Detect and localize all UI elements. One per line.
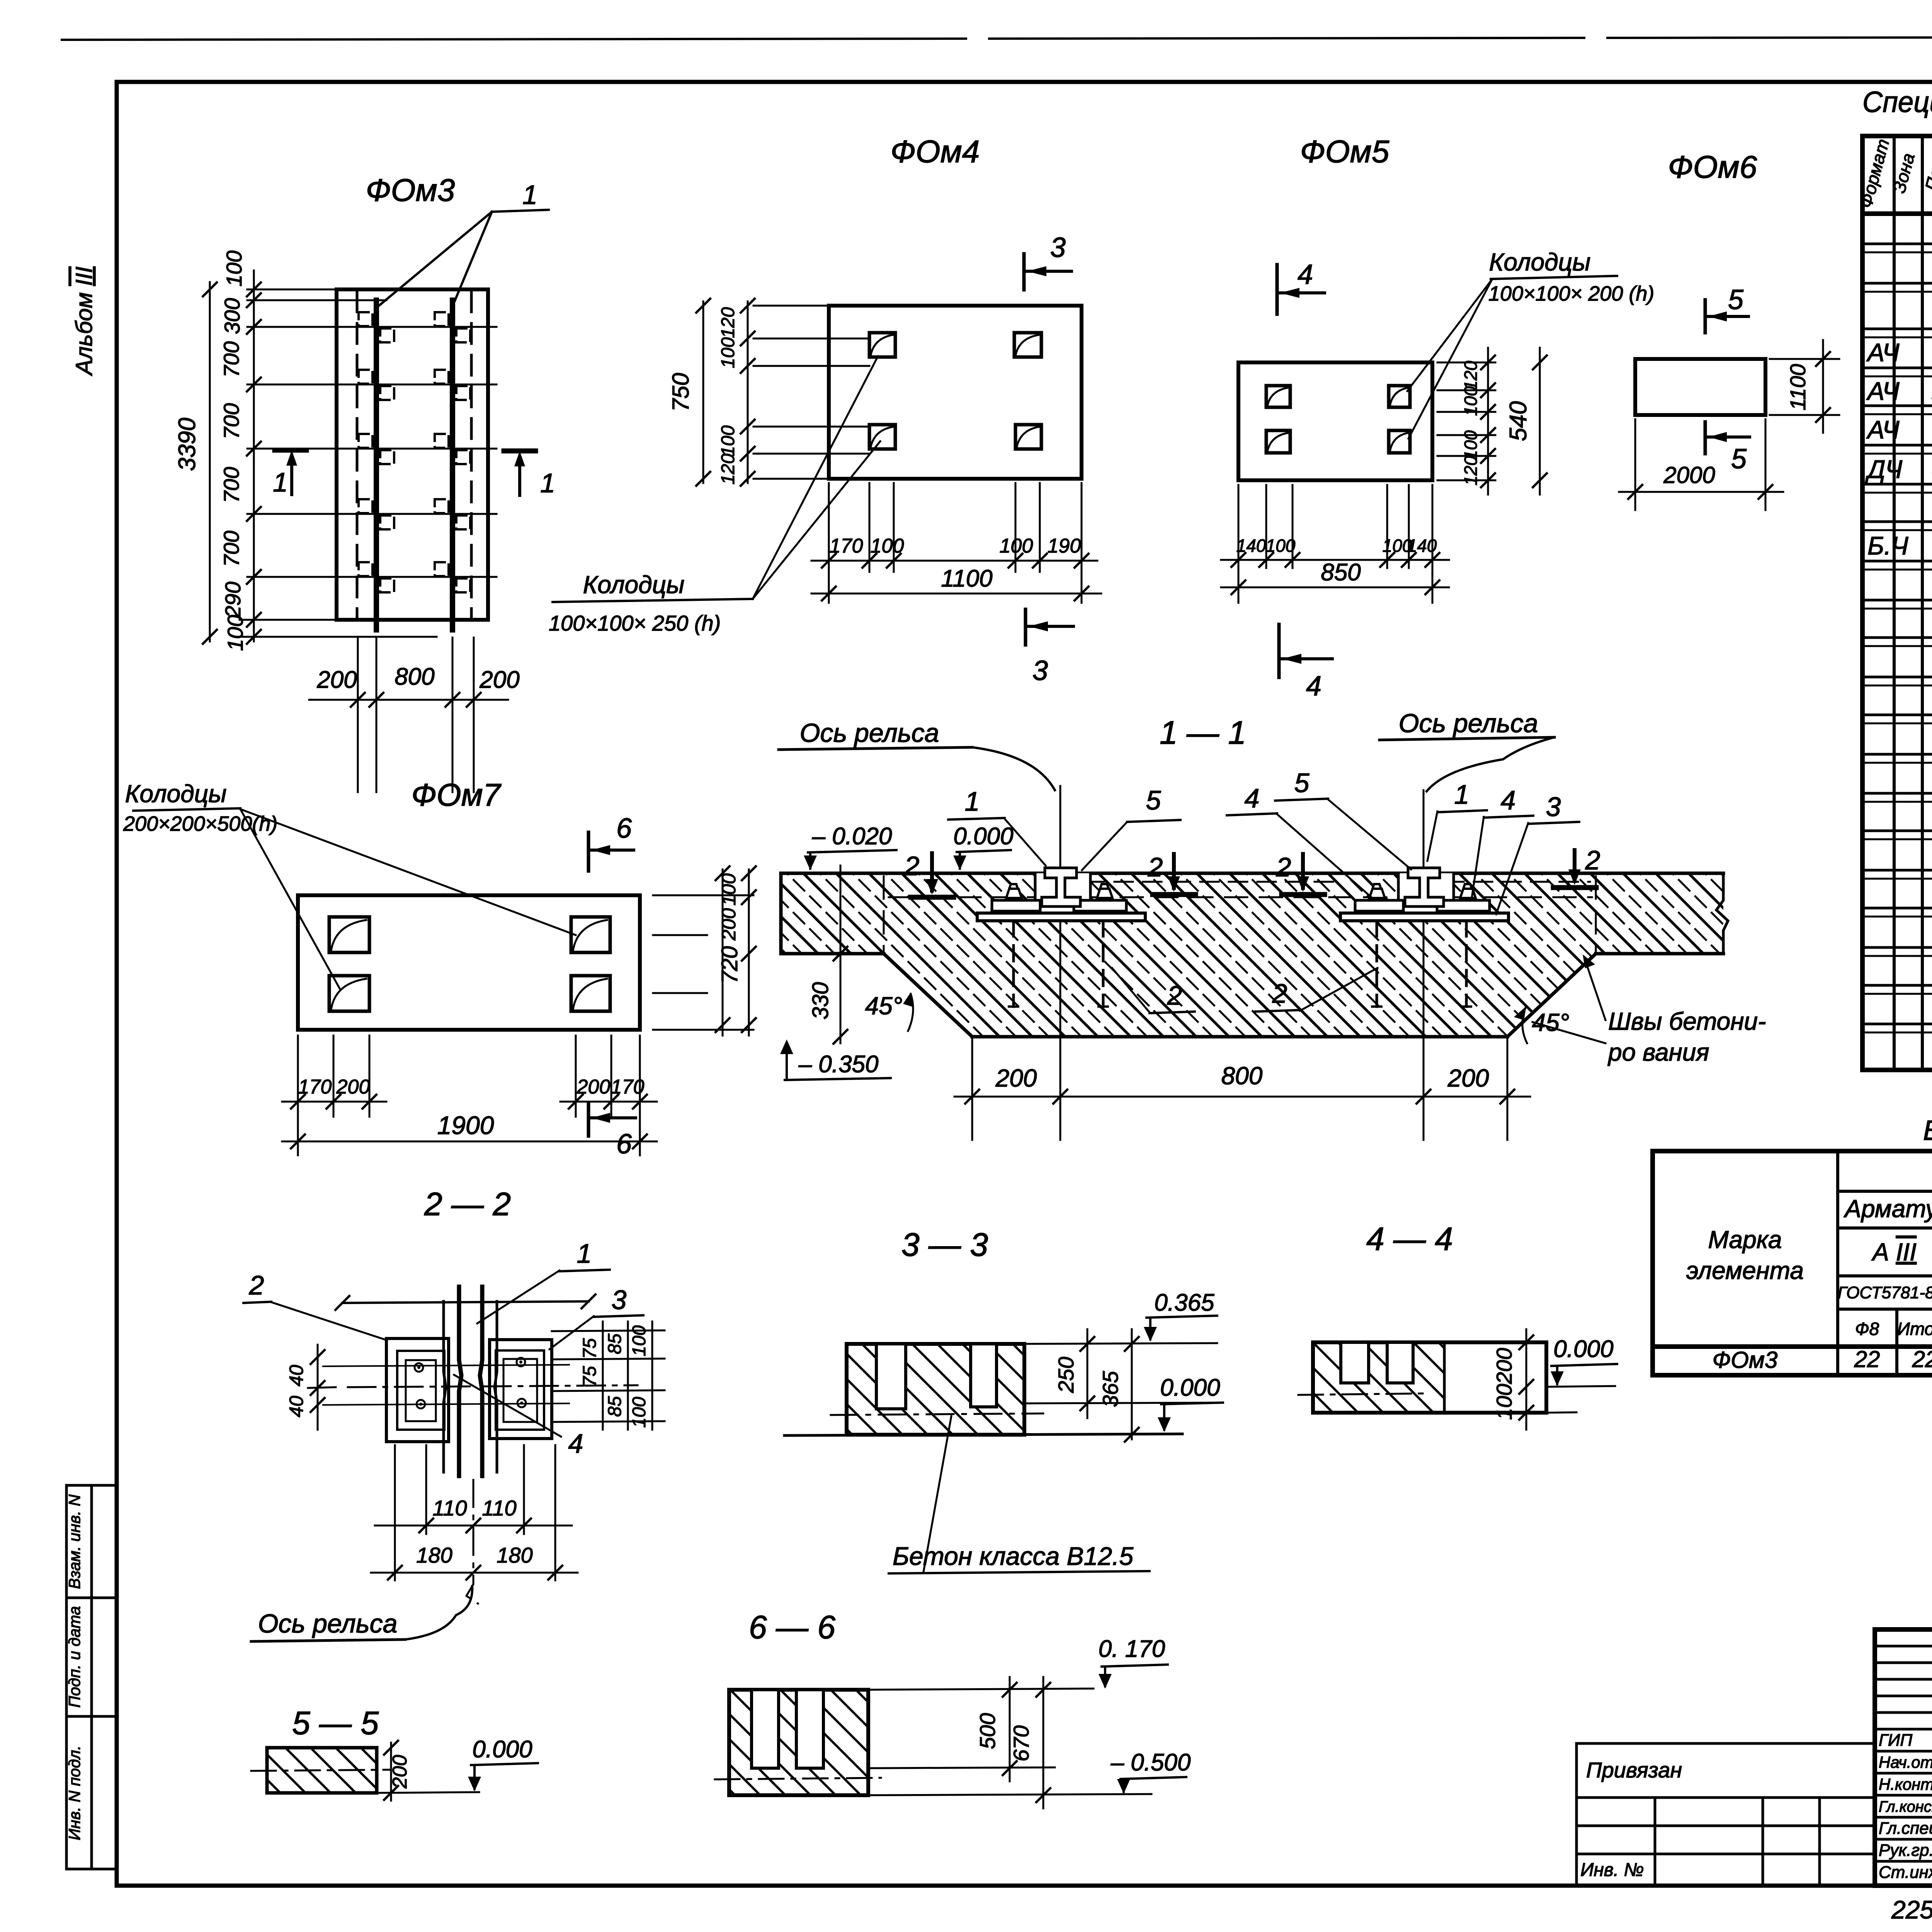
svg-text:200: 200 xyxy=(389,1755,411,1789)
left dim chain xyxy=(210,270,254,641)
svg-text:5: 5 xyxy=(1146,785,1162,815)
svg-text:2: 2 xyxy=(1276,852,1291,882)
svg-text:Марка: Марка xyxy=(1708,1226,1782,1253)
paper top edge line xyxy=(62,37,1932,40)
svg-text:100: 100 xyxy=(223,615,247,651)
anchor rows xyxy=(247,327,497,577)
dims xyxy=(1024,1329,1221,1439)
svg-text:100: 100 xyxy=(1266,536,1296,556)
spec rows content xyxy=(1865,216,1932,1066)
svg-text:Подп. и дата: Подп. и дата xyxy=(65,1606,83,1708)
svg-text:720: 720 xyxy=(717,946,742,984)
top and bottom extension lines xyxy=(240,289,437,637)
embed dashed line across block xyxy=(884,876,1596,951)
svg-text:1100: 1100 xyxy=(941,565,992,592)
svg-text:200: 200 xyxy=(995,1064,1037,1092)
section mark 6 top xyxy=(587,832,590,871)
svg-text:6: 6 xyxy=(616,1129,632,1160)
svg-text:850: 850 xyxy=(1321,559,1361,586)
svg-text:500: 500 xyxy=(975,1713,1000,1749)
svg-text:АЧ: АЧ xyxy=(1866,377,1900,405)
svg-text:Ось рельса: Ось рельса xyxy=(258,1609,398,1638)
right anchor plates nested xyxy=(490,1340,552,1439)
pad dashed lines near surface between rails xyxy=(1086,881,1590,883)
svg-text:Спецификация фундаментов под: Спецификация фундаментов под оборудовани… xyxy=(1862,86,1932,119)
svg-text:4: 4 xyxy=(1245,783,1260,813)
svg-text:4: 4 xyxy=(1501,785,1516,815)
svg-text:Гл.конст.: Гл.конст. xyxy=(1879,1798,1932,1815)
svg-text:– 0.020: – 0.020 xyxy=(812,823,892,850)
svg-text:Н.контр.: Н.контр. xyxy=(1879,1775,1932,1793)
top ext line xyxy=(342,1301,588,1303)
bottom line texts xyxy=(1891,1895,1932,1928)
left dim chains xyxy=(653,866,840,1043)
svg-text:2: 2 xyxy=(904,851,920,881)
svg-text:Ось рельса: Ось рельса xyxy=(1399,709,1538,738)
central rail (plan) xyxy=(444,1301,497,1472)
svg-text:2: 2 xyxy=(1585,845,1600,875)
svg-text:100×100× 200 (h): 100×100× 200 (h) xyxy=(1488,282,1654,305)
privyazan small table xyxy=(1577,1743,1875,1882)
long horizontal lines xyxy=(323,1365,569,1405)
svg-text:Швы бетони-: Швы бетони- xyxy=(1608,1007,1766,1035)
dashed edge lines xyxy=(357,292,471,618)
svg-text:1: 1 xyxy=(273,467,288,497)
svg-text:140: 140 xyxy=(1407,536,1437,556)
section mark 1 left xyxy=(275,448,306,453)
svg-text:1: 1 xyxy=(540,468,555,498)
svg-text:1: 1 xyxy=(965,786,980,816)
svg-text:А III: А III xyxy=(1871,1238,1917,1266)
svg-text:365: 365 xyxy=(1098,1371,1122,1407)
concrete outline xyxy=(781,873,1728,1037)
dims right xyxy=(1526,1329,1615,1430)
svg-text:100: 100 xyxy=(1000,535,1033,557)
svg-text:5: 5 xyxy=(1731,444,1747,474)
svg-text:180: 180 xyxy=(416,1543,452,1567)
svg-text:2: 2 xyxy=(1167,980,1182,1010)
svg-text:0. 170: 0. 170 xyxy=(1099,1636,1165,1662)
ext lines xyxy=(868,1677,1151,1808)
svg-text:190: 190 xyxy=(1048,535,1081,557)
bottom dims xyxy=(282,1036,657,1155)
svg-text:ДЧ: ДЧ xyxy=(1865,455,1903,483)
svg-text:Взам. инв. N: Взам. инв. N xyxy=(65,1494,83,1589)
right dim chain xyxy=(1437,348,1540,495)
svg-text:100: 100 xyxy=(629,1397,650,1428)
svg-text:ФОм5: ФОм5 xyxy=(1300,134,1389,169)
svg-text:3: 3 xyxy=(1050,232,1066,263)
svg-text:100: 100 xyxy=(1461,386,1481,416)
svg-text:3 — 3: 3 — 3 xyxy=(901,1226,988,1263)
svg-text:100×100× 250 (h): 100×100× 250 (h) xyxy=(549,611,721,635)
svg-text:170: 170 xyxy=(611,1076,645,1098)
anchor dashed squares xyxy=(359,312,470,592)
bottom dims xyxy=(1221,485,1449,603)
svg-text:0.000: 0.000 xyxy=(472,1736,532,1763)
svg-text:1: 1 xyxy=(522,180,537,210)
svg-text:5: 5 xyxy=(1728,284,1744,315)
svg-text:200: 200 xyxy=(479,667,519,693)
svg-text:ФОм3: ФОм3 xyxy=(366,173,455,208)
svg-text:0.000: 0.000 xyxy=(953,823,1013,850)
svg-text:45°: 45° xyxy=(1532,1009,1570,1036)
svg-text:Инв. N подл.: Инв. N подл. xyxy=(65,1745,83,1840)
svg-text:700: 700 xyxy=(219,341,243,377)
right dims cluster 75/85/100 xyxy=(552,1321,665,1430)
svg-text:45°: 45° xyxy=(865,992,903,1020)
rails xyxy=(376,300,452,630)
svg-text:750: 750 xyxy=(668,373,694,412)
svg-text:300: 300 xyxy=(220,298,244,334)
svg-text:100: 100 xyxy=(1492,1384,1516,1420)
concrete hatched body xyxy=(781,873,1723,1037)
svg-text:Привязан: Привязан xyxy=(1586,1758,1682,1782)
svg-text:ГОСТ5781-82*: ГОСТ5781-82* xyxy=(1838,1283,1932,1302)
svg-text:200: 200 xyxy=(718,908,740,941)
svg-text:ФОм4: ФОм4 xyxy=(891,134,980,169)
svg-text:1 — 1: 1 — 1 xyxy=(1160,714,1246,751)
svg-text:ФОм7: ФОм7 xyxy=(412,777,502,813)
bottom dims xyxy=(811,483,1101,603)
rail assembly 1 xyxy=(977,786,1145,1007)
svg-text:120: 120 xyxy=(718,307,738,338)
svg-text:Итого: Итого xyxy=(1897,1319,1932,1339)
svg-text:1: 1 xyxy=(577,1238,592,1269)
svg-text:2: 2 xyxy=(1272,978,1287,1009)
svg-text:6: 6 xyxy=(616,813,632,844)
bottom dim chain 200 800 200 xyxy=(309,638,508,792)
svg-text:75: 75 xyxy=(580,1366,600,1387)
svg-text:4: 4 xyxy=(1298,259,1313,290)
svg-text:2: 2 xyxy=(1148,852,1163,882)
svg-text:Гл.спец.: Гл.спец. xyxy=(1879,1819,1932,1838)
svg-text:Ведомость расхода стали на: Ведомость расхода стали на элемент, кг xyxy=(1923,1115,1932,1146)
svg-text:4 — 4: 4 — 4 xyxy=(1366,1221,1453,1257)
svg-text:0.365: 0.365 xyxy=(1154,1289,1214,1316)
svg-text:Рук.гр.: Рук.гр. xyxy=(1879,1841,1932,1860)
svg-text:170: 170 xyxy=(298,1076,332,1098)
svg-text:800: 800 xyxy=(395,663,434,690)
svg-text:Ф8: Ф8 xyxy=(1855,1319,1879,1339)
svg-text:0.000: 0.000 xyxy=(1160,1374,1220,1401)
dim 2000 bottom xyxy=(1619,419,1783,510)
left margin stamp boxes xyxy=(66,1485,117,1869)
svg-text:22532-01: 22532-01 xyxy=(1891,1895,1932,1924)
svg-text:Колодцы: Колодцы xyxy=(583,571,685,599)
svg-text:200: 200 xyxy=(316,667,357,693)
svg-text:3: 3 xyxy=(1032,655,1048,686)
svg-text:2: 2 xyxy=(249,1270,264,1300)
svg-text:элемента: элемента xyxy=(1686,1257,1804,1284)
svg-text:200: 200 xyxy=(1492,1348,1516,1384)
section mark 4 top xyxy=(1276,265,1279,314)
svg-text:100: 100 xyxy=(871,535,904,557)
svg-text:Ст.инж.: Ст.инж. xyxy=(1879,1863,1932,1882)
section mark 4 bottom xyxy=(1277,624,1281,677)
rail assembly 2 xyxy=(1340,790,1509,1007)
svg-text:0.000: 0.000 xyxy=(1553,1336,1613,1362)
section mark 1 right xyxy=(504,449,536,454)
svg-text:180: 180 xyxy=(497,1543,532,1567)
svg-text:22: 22 xyxy=(1854,1346,1880,1372)
svg-text:75: 75 xyxy=(580,1338,600,1359)
svg-text:4: 4 xyxy=(1306,671,1321,702)
svg-text:670: 670 xyxy=(1009,1725,1033,1761)
section mark 5 top xyxy=(1704,300,1707,333)
svg-text:170: 170 xyxy=(830,535,863,557)
svg-text:40: 40 xyxy=(286,1396,307,1417)
svg-text:110: 110 xyxy=(482,1496,516,1520)
svg-text:100: 100 xyxy=(222,250,246,286)
svg-text:1: 1 xyxy=(1454,779,1469,810)
svg-text:Нач.отд.: Нач.отд. xyxy=(1879,1753,1932,1771)
svg-text:Инв. №: Инв. № xyxy=(1580,1860,1644,1880)
svg-text:Ось рельса: Ось рельса xyxy=(800,718,939,748)
section mark 3 bottom xyxy=(1024,609,1027,645)
svg-text:ФОм3: ФОм3 xyxy=(1713,1347,1778,1373)
svg-text:85: 85 xyxy=(605,1333,625,1354)
svg-text:3390: 3390 xyxy=(174,418,201,471)
spec table grid xyxy=(1862,136,1932,1070)
svg-text:800: 800 xyxy=(1221,1062,1263,1090)
svg-text:120: 120 xyxy=(718,454,738,485)
svg-text:700: 700 xyxy=(219,467,243,503)
spec header texts xyxy=(1855,137,1932,210)
svg-text:ГИП: ГИП xyxy=(1879,1731,1912,1750)
svg-text:ро вания: ро вания xyxy=(1607,1038,1709,1066)
svg-text:5: 5 xyxy=(1294,768,1310,798)
svg-text:200: 200 xyxy=(1447,1064,1489,1092)
svg-text:6 — 6: 6 — 6 xyxy=(749,1609,835,1645)
svg-text:85: 85 xyxy=(605,1396,625,1417)
svg-text:Колодцы: Колодцы xyxy=(125,780,227,808)
bottom dims xyxy=(371,1445,578,1604)
svg-text:200×200×500(h): 200×200×500(h) xyxy=(123,812,277,835)
svg-text:Б.Ч: Б.Ч xyxy=(1867,531,1908,560)
svg-text:120: 120 xyxy=(1461,456,1481,485)
svg-text:100: 100 xyxy=(1461,430,1481,460)
left 40/40 dims xyxy=(317,1345,319,1430)
svg-text:540: 540 xyxy=(1505,401,1532,441)
left dim chain xyxy=(703,301,869,483)
svg-text:200: 200 xyxy=(336,1076,370,1098)
svg-text:140: 140 xyxy=(1236,536,1266,556)
bottom dims 200 800 200 xyxy=(954,1009,1530,1140)
svg-text:АЧ: АЧ xyxy=(1866,338,1900,367)
svg-text:2000: 2000 xyxy=(1663,462,1715,488)
svg-text:3: 3 xyxy=(1546,792,1561,822)
svg-text:700: 700 xyxy=(219,531,243,566)
svg-text:Альбом III: Альбом III xyxy=(71,267,97,376)
svg-text:100: 100 xyxy=(718,873,740,906)
svg-text:290: 290 xyxy=(221,582,245,618)
section mark 5 bottom xyxy=(1704,422,1707,454)
svg-text:– 0.500: – 0.500 xyxy=(1111,1749,1191,1776)
svg-text:100: 100 xyxy=(718,337,738,368)
section mark 6 bottom xyxy=(587,1103,590,1136)
svg-text:Арматура класса: Арматура класса xyxy=(1843,1195,1932,1223)
svg-text:1900: 1900 xyxy=(437,1111,494,1139)
section marks 2 xyxy=(904,851,954,897)
svg-text:100: 100 xyxy=(629,1325,650,1356)
svg-text:40: 40 xyxy=(286,1365,307,1386)
svg-text:3: 3 xyxy=(612,1285,627,1315)
svg-text:5 — 5: 5 — 5 xyxy=(292,1705,379,1741)
svg-text:250: 250 xyxy=(1054,1357,1078,1393)
svg-text:АЧ: АЧ xyxy=(1866,415,1900,444)
svg-text:200: 200 xyxy=(577,1076,611,1098)
svg-text:2 — 2: 2 — 2 xyxy=(424,1186,511,1222)
svg-text:22: 22 xyxy=(1912,1346,1932,1372)
svg-text:ФОм6: ФОм6 xyxy=(1668,150,1757,185)
svg-text:Колодцы: Колодцы xyxy=(1489,248,1591,276)
svg-text:700: 700 xyxy=(219,403,243,439)
anchor squares with fold curves xyxy=(869,333,1041,449)
svg-text:– 0.350: – 0.350 xyxy=(798,1051,879,1078)
svg-text:4: 4 xyxy=(568,1429,583,1459)
section mark 3 top xyxy=(1022,254,1026,290)
slab outline xyxy=(337,289,488,620)
dim 1100 right xyxy=(1770,340,1839,433)
svg-text:120: 120 xyxy=(1461,361,1481,390)
svg-text:330: 330 xyxy=(808,982,833,1020)
svg-text:110: 110 xyxy=(432,1496,467,1520)
svg-text:1100: 1100 xyxy=(1786,364,1810,410)
svg-text:100: 100 xyxy=(718,425,738,456)
left anchor plates nested xyxy=(386,1338,449,1442)
